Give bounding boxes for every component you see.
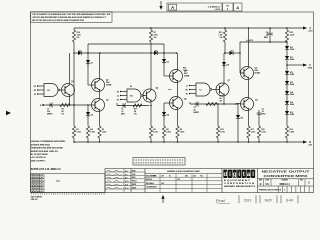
svg-text:MFD: MFD: [264, 37, 269, 39]
svg-text:1,500: 1,500: [166, 132, 171, 134]
svg-text:Q4: Q4: [156, 87, 160, 90]
svg-text:1: 1: [284, 190, 286, 192]
svg-text:D5: D5: [79, 50, 81, 52]
svg-text:Q3: Q3: [106, 99, 109, 101]
svg-text:GND: GND: [308, 68, 313, 70]
svg-text:E2: E2: [34, 90, 36, 92]
svg-text:N1: N1: [186, 93, 188, 95]
svg-text:REV: REV: [300, 180, 303, 182]
svg-text:D1: D1: [91, 62, 93, 64]
svg-text:L1: L1: [186, 85, 188, 87]
svg-text:E: E: [40, 105, 42, 107]
svg-text:4-11: 4-11: [125, 184, 128, 187]
svg-text:401: 401: [37, 179, 40, 182]
svg-text:D664: D664: [290, 73, 294, 76]
svg-text:1,500: 1,500: [183, 70, 188, 72]
svg-text:A1: A1: [47, 89, 50, 92]
svg-text:4,700: 4,700: [153, 131, 158, 134]
svg-text:H2: H2: [117, 91, 119, 93]
svg-text:UNLESS OTHERWISE INDICATED:: UNLESS OTHERWISE INDICATED:: [31, 140, 66, 143]
svg-text:d: d: [223, 171, 227, 178]
svg-text:A: A: [236, 5, 239, 10]
svg-text:MMFD: MMFD: [47, 114, 53, 116]
svg-text:N: N: [280, 190, 282, 192]
svg-text:THIS SCHEMATIC IS FURNISHED ON: THIS SCHEMATIC IS FURNISHED ONLY FOR TES…: [32, 13, 111, 16]
svg-text:1,500: 1,500: [76, 132, 81, 134]
svg-text:.005: .005: [193, 176, 196, 178]
svg-text:1,500: 1,500: [102, 132, 107, 134]
svg-text:C: C: [309, 63, 311, 67]
svg-text:E1 IS DEC7400N: E1 IS DEC7400N: [31, 153, 48, 156]
svg-text:+10V: +10V: [308, 31, 313, 33]
svg-text:J2: J2: [117, 95, 119, 97]
svg-text:C O R P O R A T I O N: C O R P O R A T I O N: [224, 182, 255, 185]
svg-text:D4: D4: [167, 113, 170, 116]
svg-text:6534B: 6534B: [255, 72, 261, 75]
svg-text:D9: D9: [241, 117, 243, 119]
svg-text:1,500: 1,500: [261, 132, 266, 134]
svg-text:DIODES ARE D664: DIODES ARE D664: [31, 143, 51, 146]
svg-text:1: 1: [227, 8, 229, 11]
svg-text:PROJ: PROJ: [132, 181, 136, 183]
svg-text:D2: D2: [34, 86, 36, 88]
svg-text:LOGIC: LOGIC: [215, 9, 221, 11]
svg-text:TRANSISTORS ARE DEC3009B: TRANSISTORS ARE DEC3009B: [31, 147, 63, 150]
svg-text:CODE: CODE: [265, 180, 269, 182]
svg-text:1,500: 1,500: [180, 132, 185, 134]
svg-text:3009B: 3009B: [184, 76, 190, 78]
svg-text:Final: Final: [216, 198, 225, 203]
svg-text:.397: .397: [161, 176, 164, 178]
svg-text:JW: JW: [40, 188, 43, 190]
svg-text:1,500: 1,500: [251, 132, 256, 134]
svg-text:F2: F2: [34, 94, 36, 96]
svg-text:JW: JW: [40, 177, 43, 179]
svg-text:4,700: 4,700: [220, 131, 225, 134]
svg-text:CONVERTER M650: CONVERTER M650: [264, 174, 309, 178]
svg-text:1,500: 1,500: [290, 132, 295, 134]
svg-text:1,000: 1,000: [290, 35, 295, 37]
svg-text:K2: K2: [117, 99, 119, 101]
svg-text:R14: R14: [220, 94, 223, 97]
svg-text:4-8: 4-8: [125, 170, 128, 173]
svg-text:4-12: 4-12: [125, 187, 128, 190]
svg-text:401: 401: [37, 174, 40, 177]
svg-text:DRAWING & SIGN CONVERSION CHAR: DRAWING & SIGN CONVERSION CHART: [167, 170, 201, 173]
svg-text:(+) LPS: (+) LPS: [246, 40, 254, 42]
svg-text:CIRCUITS ARE PROPRIETARY IN NA: CIRCUITS ARE PROPRIETARY IN NATURE AND S…: [32, 16, 107, 19]
svg-text:4-10: 4-10: [125, 180, 128, 183]
svg-text:TOLERANCES: TOLERANCES: [146, 185, 157, 188]
svg-text:5%: 5%: [220, 101, 223, 103]
svg-text:GND ON PIN 7: GND ON PIN 7: [31, 160, 46, 162]
svg-text:5%: 5%: [62, 114, 65, 116]
svg-text:D664: D664: [290, 83, 294, 86]
svg-text:401: 401: [37, 190, 40, 193]
svg-text:Q7: Q7: [228, 80, 232, 82]
svg-text:M600-0-1: M600-0-1: [280, 183, 291, 186]
svg-text:.030: .030: [161, 183, 164, 185]
svg-text:B: B: [260, 182, 262, 186]
svg-text:4-9: 4-9: [125, 173, 128, 176]
svg-text:5%: 5%: [220, 37, 223, 39]
svg-text:RESISTORS ARE 1/4W; 5%: RESISTORS ARE 1/4W; 5%: [31, 150, 58, 153]
svg-text:401: 401: [37, 184, 40, 187]
svg-text:A: A: [171, 5, 174, 10]
svg-text:E1: E1: [130, 86, 132, 88]
svg-text:Q9: Q9: [255, 99, 258, 101]
svg-text:D664: D664: [290, 113, 294, 116]
svg-text:1,500: 1,500: [90, 132, 95, 134]
svg-text:i: i: [229, 171, 231, 178]
svg-text:MMFD: MMFD: [194, 112, 200, 114]
svg-text:M1: M1: [186, 89, 189, 91]
svg-text:D6: D6: [155, 50, 157, 52]
svg-text:Q6: Q6: [184, 98, 187, 100]
svg-text:C1: C1: [199, 89, 202, 91]
svg-text:MAYNARD. MASSACHUSETTS: MAYNARD. MASSACHUSETTS: [224, 185, 255, 188]
svg-text:5%: 5%: [154, 37, 157, 39]
svg-text:MFD: MFD: [262, 114, 267, 116]
svg-text:B: B: [309, 140, 311, 144]
svg-text:D8: D8: [227, 64, 229, 66]
svg-text:3+R: 3+R: [286, 198, 294, 203]
svg-text:D664: D664: [290, 93, 294, 96]
svg-text:DATE: DATE: [132, 183, 136, 186]
svg-text:DECIMALS: DECIMALS: [146, 182, 154, 185]
svg-text:MAY NOT BE USED IN WHOLE OR PA: MAY NOT BE USED IN WHOLE OR PART AS BASI…: [32, 19, 84, 22]
svg-text:401: 401: [37, 187, 40, 190]
svg-text:JW: JW: [40, 180, 43, 182]
svg-text:R4: R4: [90, 128, 92, 131]
svg-text:D7: D7: [231, 50, 233, 52]
svg-text:N3Y: N3Y: [265, 198, 273, 203]
svg-text:D664: D664: [290, 48, 294, 51]
svg-text:D664: D664: [290, 58, 294, 61]
svg-text:CS: CS: [266, 183, 270, 186]
svg-text:5%: 5%: [134, 114, 137, 116]
svg-text:DATE: DATE: [132, 186, 136, 189]
svg-text:IN: IN: [169, 175, 171, 177]
svg-text:a: a: [247, 171, 251, 178]
svg-text:401: 401: [37, 176, 40, 179]
svg-text:INCHES: INCHES: [146, 179, 152, 181]
svg-text:JW: JW: [40, 185, 43, 187]
svg-text:i: i: [238, 171, 240, 178]
svg-text:JW: JW: [40, 175, 43, 177]
svg-text:PRINTED CIRCUIT REV.: PRINTED CIRCUIT REV.: [259, 189, 280, 191]
svg-text:l: l: [252, 171, 254, 178]
svg-text:PARTS LIST A-PL-M600-0-0: PARTS LIST A-PL-M600-0-0: [31, 168, 61, 171]
svg-text:t: t: [243, 171, 245, 178]
svg-text:5%: 5%: [77, 37, 80, 39]
svg-text:.015: .015: [177, 179, 180, 181]
svg-text:MFD: MFD: [121, 114, 126, 116]
svg-text:NUMBER: NUMBER: [282, 180, 288, 182]
svg-text:D2: D2: [91, 114, 93, 116]
svg-text:SIZE: SIZE: [259, 180, 262, 182]
svg-text:MILLIMETERS: MILLIMETERS: [146, 176, 156, 178]
svg-text:g: g: [233, 171, 237, 178]
svg-text:D3: D3: [167, 61, 169, 63]
svg-text:JW: JW: [40, 183, 43, 185]
svg-text:4-9: 4-9: [125, 177, 128, 180]
svg-text:401: 401: [37, 182, 40, 185]
svg-text:DEC FORM NO: DEC FORM NO: [31, 197, 43, 199]
svg-text:C: C: [308, 181, 310, 185]
svg-text:E Q U I P M E N T: E Q U I P M E N T: [224, 180, 251, 182]
svg-text:3009B: 3009B: [106, 85, 112, 87]
svg-text:A: A: [309, 26, 311, 30]
svg-text:DRB 102: DRB 102: [31, 199, 38, 201]
svg-text:B1: B1: [130, 95, 133, 97]
svg-text:D31: D31: [244, 198, 252, 203]
svg-text:TOL: TOL: [200, 175, 203, 177]
svg-text:+5V ON PIN 14: +5V ON PIN 14: [31, 156, 47, 159]
svg-text:-15V: -15V: [308, 145, 313, 147]
svg-text:D664: D664: [290, 103, 294, 106]
